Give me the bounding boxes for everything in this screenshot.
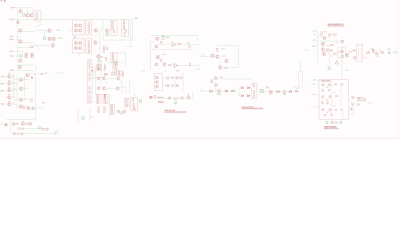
resistor RX4 [322, 101, 323, 103]
resistor R34 [113, 30, 114, 33]
IC U12 box [357, 44, 363, 61]
resistor RU1 [154, 95, 155, 98]
resistor RJ1 [89, 73, 90, 76]
resistor RL2 [8, 79, 10, 81]
wire [25, 128, 50, 130]
capacitor C15 (green) [328, 67, 330, 69]
resistor RY9 [115, 70, 116, 72]
wire slanted [34, 24, 43, 27]
wire [117, 61, 123, 63]
svg-text:J1: J1 [1, 123, 4, 125]
resistor R32 [112, 24, 113, 27]
svg-text:AGND: AGND [217, 93, 222, 96]
wire [100, 29, 102, 31]
buffer A5 [247, 87, 250, 89]
schematic title line 2 [328, 25, 345, 27]
wire [112, 60, 114, 73]
wire [126, 46, 134, 48]
wire [13, 74, 15, 96]
capacitor CV3 [171, 85, 173, 87]
page bottom edge [0, 137, 398, 139]
wire [106, 78, 117, 80]
svg-text:C9: C9 [364, 57, 367, 59]
transistor QS5 [102, 87, 105, 90]
resistor RL4 [8, 94, 10, 96]
transistor Q18 [94, 41, 98, 45]
resistor R43 [106, 47, 107, 50]
sub-circuit box (VCO core) [337, 47, 346, 58]
resistor RX2 [322, 89, 323, 91]
wire [117, 52, 125, 54]
resistor R38 [125, 30, 126, 33]
wire [317, 79, 320, 81]
svg-text:R6: R6 [327, 46, 330, 48]
transistor QL3 [8, 88, 12, 92]
capacitor C14 [353, 50, 355, 52]
wire [340, 120, 342, 122]
resistor RS2 [115, 72, 116, 75]
resistor RT6 [105, 101, 106, 103]
net label KYBD [11, 7, 15, 8]
transistor QL4 [8, 96, 12, 100]
svg-text:C44 10u: C44 10u [358, 100, 363, 102]
transistor Q28 [225, 59, 229, 63]
transistor QM2 [19, 87, 23, 91]
resistor R77 [373, 49, 374, 52]
label 78L12 [357, 97, 364, 99]
switch S1 contacts [150, 97, 152, 98]
svg-text:DWG 12-345 SHEET 2: DWG 12-345 SHEET 2 [328, 25, 345, 27]
wire [179, 77, 180, 79]
wire [326, 120, 328, 123]
wire [197, 35, 199, 41]
wire [286, 91, 289, 93]
wire [16, 74, 18, 109]
buffer A4 [241, 87, 244, 89]
resistor RP3 [18, 128, 21, 129]
wire [179, 65, 200, 67]
IC U6 box [111, 21, 118, 36]
transistor U2c [74, 29, 77, 32]
resistor RY12 [122, 72, 123, 74]
wire [128, 80, 130, 94]
net label PW [10, 19, 14, 20]
resistor RJ0a [89, 61, 90, 63]
transistor QS4 [97, 87, 100, 90]
diode DP1 [13, 132, 16, 135]
transistor U2d [79, 29, 82, 32]
transistor Q11 [25, 53, 28, 56]
resistor R37 [123, 27, 124, 30]
resistor RY4 [104, 68, 105, 70]
resistor RT1 [97, 95, 98, 97]
resistor R33 [112, 27, 113, 30]
resistor RT17 [132, 98, 133, 101]
capacitor C6 (green) [106, 33, 108, 35]
diode DX1 [328, 89, 330, 91]
resistor R71 [321, 32, 322, 35]
label note1 [158, 101, 164, 103]
wire [106, 87, 116, 89]
connector J3 pin [351, 108, 353, 110]
transistor QN3 [27, 106, 30, 109]
transistor QX4 [329, 95, 331, 97]
transistor Q10 [51, 44, 55, 48]
wire [317, 31, 319, 62]
buffer A3 [232, 90, 235, 92]
wire [217, 78, 252, 80]
transistor QM3 [19, 98, 23, 102]
resistor R75 [333, 53, 336, 54]
connector P1 (green) [260, 90, 263, 93]
resistor R49 [113, 59, 114, 61]
wire [392, 52, 396, 54]
wire [191, 92, 193, 98]
wire [15, 50, 24, 52]
wire [239, 95, 241, 97]
wire [334, 122, 340, 124]
resistor RY7 [115, 62, 116, 64]
capacitor C12 [330, 50, 332, 52]
wire [182, 43, 201, 45]
capacitor C17 [388, 52, 390, 54]
box comp [97, 64, 102, 70]
resistor R44 [100, 56, 103, 57]
wire [23, 79, 32, 81]
buffer A2 [225, 90, 228, 92]
resistor R41 [103, 46, 104, 49]
wire [92, 29, 94, 31]
resistor R46 [115, 62, 116, 65]
diode D12 [353, 56, 356, 59]
pin marks U2 [74, 36, 75, 38]
diode DX2 [326, 102, 328, 104]
diode DB2 [46, 128, 49, 131]
label C30 [157, 97, 163, 99]
wire [342, 110, 344, 120]
svg-text:R71: R71 [324, 31, 327, 33]
transistor QL1 [8, 75, 12, 79]
resistor RY6 [106, 73, 107, 75]
transistor U4a [74, 41, 77, 44]
wire [12, 76, 14, 78]
VCA cell U40 [217, 90, 220, 93]
resistor R54 [161, 59, 162, 62]
resistor R53 [189, 45, 190, 48]
title block line 2 [165, 111, 187, 114]
transistor QN4 [32, 107, 35, 110]
title block line 1 [165, 110, 175, 112]
resistor R74 [331, 44, 334, 45]
transistor Q15 [19, 59, 23, 63]
resistor RT13 [111, 111, 112, 113]
wire [238, 46, 240, 68]
capacitor CV1 [171, 77, 173, 79]
transistor Q32 [321, 42, 325, 46]
svg-text:+15V: +15V [312, 31, 317, 33]
resistor RJ3 [89, 87, 90, 90]
op-amp U9B [173, 64, 178, 68]
wire [18, 31, 35, 33]
transistor U30b [156, 81, 159, 84]
wire [238, 88, 240, 96]
net label L2 [0, 83, 4, 84]
sheet label mark 1 [0, 0, 2, 2]
resistor R39 [124, 33, 125, 35]
capacitor CX1 [341, 84, 343, 86]
IC U25 box [125, 98, 130, 107]
capacitor CX2 [341, 109, 343, 110]
resistor R42 [103, 50, 104, 53]
IC U41 box [252, 83, 257, 99]
transistor Q31 [323, 36, 326, 39]
svg-text:+15V: +15V [186, 42, 191, 44]
transistor Q27 [216, 55, 220, 59]
transistor QX6 [329, 108, 331, 110]
resistor RT9 [104, 107, 105, 110]
transistor Q12 [25, 55, 28, 58]
wire [31, 73, 45, 75]
resistor R36 [123, 24, 124, 27]
trimmer box VR1 [34, 11, 41, 22]
transistor Q16 [18, 65, 22, 69]
resistor RT3 [97, 101, 98, 103]
diode DV1 [166, 76, 169, 79]
transistor Q29 [219, 66, 223, 70]
wire [106, 81, 108, 87]
variable resistor VR4 [331, 121, 334, 124]
IC U7 box [122, 20, 129, 37]
connector box J2 [87, 60, 92, 104]
wire [316, 106, 320, 108]
transistor Q14 [31, 55, 34, 58]
net label SYNC [10, 36, 14, 37]
resistor RP5 [17, 133, 19, 134]
wire [182, 72, 184, 91]
svg-text:R45: R45 [176, 71, 180, 73]
buffer A7 [247, 95, 250, 97]
wire [23, 88, 30, 90]
wire [101, 60, 103, 78]
wire [3, 75, 8, 77]
transistor QN1 [26, 73, 30, 77]
bus line inside box [331, 83, 333, 118]
wire slanted [34, 44, 39, 48]
diode DV3 [166, 84, 169, 87]
wire [318, 40, 341, 42]
wire [107, 62, 114, 64]
wire [150, 42, 152, 71]
IC U23 box [103, 94, 108, 103]
note line 1 [242, 106, 254, 109]
resistor RJ2 [89, 78, 90, 81]
svg-text:U9B: U9B [195, 69, 201, 71]
IC U8 box [111, 52, 117, 62]
junction dot 2 [188, 94, 189, 95]
transistor Q3 [30, 14, 34, 17]
capacitor C11 [341, 40, 344, 42]
resistor RW1 [211, 80, 212, 83]
transistor Q13 [31, 53, 34, 56]
wire net to buffer [150, 34, 198, 36]
resistor RT18 [133, 103, 134, 106]
wire [19, 8, 21, 10]
diode DX3 [330, 114, 332, 116]
transistor U2a [74, 24, 77, 27]
wire [215, 87, 217, 90]
svg-text:SEE NOTE 3: SEE NOTE 3 [158, 102, 164, 104]
wire [18, 41, 35, 43]
IC U2 matched pair box [73, 20, 84, 35]
wire [200, 55, 211, 57]
wire [174, 75, 176, 88]
wire (pink stub) [77, 110, 79, 122]
wire [148, 41, 155, 43]
capacitor C5 (green) [98, 60, 100, 62]
resistor R21 [88, 23, 89, 26]
capacitor CZ2 (green) [340, 122, 342, 124]
transistor QS6 [116, 87, 119, 90]
buffer A10 [289, 91, 292, 93]
wire [52, 41, 54, 44]
resistor RW4 [253, 95, 254, 97]
resistor RX8 [357, 104, 360, 105]
wire vertical bus [17, 8, 19, 71]
box title [321, 79, 331, 82]
svg-text:C4: C4 [328, 37, 331, 39]
transistor Q2 [26, 14, 30, 17]
svg-text:+15V: +15V [161, 36, 166, 38]
resistor RW5 [266, 87, 268, 88]
wire [15, 69, 34, 71]
capacitor CU1 (green) [175, 102, 177, 104]
resistor R35 [123, 21, 124, 24]
resistor RY2 [98, 67, 99, 69]
wire [108, 94, 110, 118]
note line 2 [241, 107, 263, 110]
transient suppressor triangle [335, 61, 339, 64]
transistor QM4 [19, 105, 23, 109]
wire [92, 74, 97, 76]
wire [14, 99, 19, 101]
svg-text:R9: R9 [93, 77, 96, 79]
resistor RW3 [253, 91, 254, 94]
resistor RJ6 [89, 100, 90, 103]
transistor U4d [79, 46, 82, 49]
resistor R55 [169, 64, 172, 65]
wire [130, 20, 132, 47]
resistor RJ0b [89, 65, 90, 67]
capacitor C16 [381, 51, 384, 53]
svg-text:C5: C5 [333, 105, 335, 107]
resistor RZ1 [335, 122, 337, 123]
transistor QL2 [8, 82, 12, 86]
transistor QX2 [328, 84, 330, 86]
svg-text:+15V: +15V [312, 80, 317, 82]
resistor RT15 [126, 102, 127, 104]
resistor RL3 [8, 86, 10, 88]
variable resistor VR2 [29, 122, 32, 125]
resistor R47 [112, 53, 113, 56]
svg-text:R2: R2 [45, 73, 47, 75]
output driver A11 [296, 90, 298, 92]
IC U18 box [97, 64, 100, 71]
label in box [132, 109, 137, 111]
wire [44, 31, 46, 37]
IC U26 box [131, 97, 138, 111]
wire [152, 97, 192, 99]
svg-text:R1: R1 [326, 87, 328, 89]
junction dot [31, 77, 33, 79]
connector pin (green) [55, 133, 57, 135]
transistor Q36 [345, 53, 349, 57]
switch S1 [150, 96, 153, 98]
resistor RT2 [97, 98, 98, 100]
diode DP2 [20, 132, 23, 135]
resistor R26 [88, 48, 89, 51]
wire long vertical net [34, 65, 36, 119]
wire [99, 32, 101, 55]
wire [317, 83, 320, 85]
wire [280, 91, 283, 93]
transistor QX1 [322, 84, 324, 86]
resistor R61 [217, 48, 218, 51]
transistor QL5 [8, 103, 12, 107]
buffer A1 [210, 90, 213, 92]
resistor RY8 [115, 65, 116, 67]
svg-text:4016: 4016 [132, 109, 137, 111]
svg-text:Q4: Q4 [12, 97, 14, 99]
diode DT1 [117, 110, 120, 113]
wire [120, 87, 126, 94]
resistor R73 [333, 34, 336, 35]
wire [17, 106, 19, 108]
wire (pink stub 2) [89, 107, 91, 122]
transistor Q6 [19, 40, 23, 44]
resistor R25 [88, 44, 89, 47]
wire [18, 46, 31, 48]
svg-text:+15V: +15V [221, 49, 226, 51]
wire [200, 90, 237, 92]
transistor QM1 [19, 78, 23, 82]
net label L3 [0, 90, 4, 91]
net label PUL [10, 55, 14, 56]
IC U22 box [96, 94, 101, 103]
svg-text:+15V: +15V [56, 30, 61, 32]
wire [96, 76, 104, 78]
diode D13 [367, 51, 370, 54]
transistor Q7 [48, 29, 52, 33]
capacitor C13 (green) [341, 55, 343, 57]
transistor Q9 [52, 37, 56, 41]
net label L4 [0, 103, 4, 104]
buffer A9 [277, 91, 280, 93]
resistor RX1 [334, 84, 336, 85]
wire [348, 99, 351, 101]
diode DB1 [42, 128, 45, 131]
resistor R24 [88, 41, 89, 44]
resistor RP4 [22, 128, 24, 129]
resistor RT10 [104, 110, 105, 113]
wire [316, 94, 319, 96]
capacitor C2 (green) [43, 37, 45, 39]
capacitor CV2 [180, 77, 182, 79]
wire [316, 30, 318, 32]
transistor Q22 [155, 45, 158, 48]
wire [341, 41, 343, 79]
capacitor CX3 [352, 97, 354, 99]
capacitor CG (green) [82, 117, 84, 119]
